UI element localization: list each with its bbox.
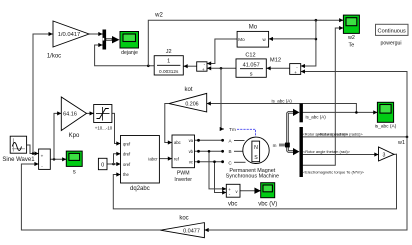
wire: branch up to Kpo input [54, 113, 61, 159]
wire: rotor angle line to w1 gain [303, 154, 378, 156]
block powergui [376, 24, 409, 46]
block Sine Wave1 [2, 136, 35, 163]
svg-text:+: + [294, 70, 297, 75]
svg-text:0.00312s: 0.00312s [159, 69, 179, 74]
svg-text:is_abc (A): is_abc (A) [375, 123, 397, 129]
mux output thick line and arrow [106, 38, 112, 41]
svg-text:is_abc (A): is_abc (A) [306, 115, 327, 120]
wire: sine reference vertical to 1/koc gain [33, 34, 52, 154]
block saturation [94, 105, 113, 131]
block PWM Inverter [172, 135, 195, 183]
svg-text:N: N [254, 145, 258, 151]
wire: 1/koc output to mux [89, 33, 102, 35]
svg-text:koc: koc [179, 216, 188, 222]
wire: PWM vc to machine C [195, 161, 223, 163]
svg-text:J2: J2 [166, 49, 172, 55]
svg-text:abc: abc [174, 140, 181, 145]
wire: PWM vb to machine B [195, 150, 223, 152]
bus selector 1 [300, 104, 303, 123]
wire: constant 0 to oref [107, 163, 120, 165]
gain koc (bottom) [161, 216, 205, 238]
bus selector 2 [300, 127, 303, 177]
svg-text:1/koc: 1/koc [47, 54, 61, 60]
svg-text:Te: Te [349, 43, 355, 49]
svg-text:+: + [41, 153, 44, 158]
wire: w1 gain output [394, 153, 397, 155]
node: junction w2 top [315, 19, 318, 22]
node: junction w2 [147, 65, 150, 68]
sum sine (error) [39, 149, 51, 169]
wire: electrical angle feedback to the input [113, 154, 396, 209]
wire: machine m output bus (thick) [279, 112, 294, 151]
node: junction speed to koc [406, 136, 409, 139]
svg-text:dref: dref [123, 152, 131, 157]
svg-text:+10...-10: +10...-10 [95, 126, 113, 131]
svg-text:va: va [189, 138, 194, 143]
wire: Mo output down to J2 sum top input [207, 39, 237, 64]
svg-text:dejanje: dejanje [121, 50, 138, 56]
wire: w2 up and across to scope w2Te input1 [148, 20, 343, 66]
scope w2 Te [343, 15, 359, 49]
bus arrowheads into selectors [293, 109, 300, 116]
svg-text:s: s [73, 170, 76, 176]
svg-text:powergui: powergui [380, 40, 401, 46]
svg-text:PWM: PWM [177, 170, 190, 176]
svg-text:Kpo: Kpo [69, 133, 80, 139]
wire: w1 speed line right to M12 sum bottom input [301, 72, 407, 137]
svg-text:qref: qref [123, 142, 131, 147]
wire: sum output to scope s [51, 158, 66, 160]
svg-text:0.0477: 0.0477 [183, 228, 200, 234]
svg-text:41.057: 41.057 [243, 62, 260, 68]
block Mo [237, 24, 269, 47]
scope is_abc [375, 102, 397, 129]
scope dejanje [120, 32, 139, 57]
svg-text:<Electromagnetic torque Te (N*: <Electromagnetic torque Te (N*m)> [303, 169, 365, 174]
svg-text:<Rotor speed wm (rad/s)>: <Rotor speed wm (rad/s)> [318, 131, 364, 136]
svg-text:+: + [202, 67, 205, 72]
svg-text:0: 0 [101, 162, 104, 168]
wire: vc branch to vbc minus [215, 162, 226, 193]
node: junction sine/1koc [32, 152, 35, 155]
wire: speed down to koc gain [205, 137, 407, 230]
svg-text:Mo: Mo [249, 24, 258, 30]
svg-text:vbc (V): vbc (V) [258, 202, 277, 208]
svg-text:0.206: 0.206 [185, 102, 198, 108]
svg-text:Continuous: Continuous [378, 28, 407, 34]
svg-text:Sine Wave1: Sine Wave1 [2, 157, 35, 163]
gain 1/koc [47, 21, 89, 60]
wire: vb branch to vbc plus [209, 151, 226, 189]
svg-text:vbc: vbc [228, 202, 237, 208]
svg-text:vc: vc [189, 159, 193, 164]
svg-text:M12: M12 [270, 57, 281, 63]
svg-text:Synchronous Machine: Synchronous Machine [226, 174, 279, 180]
svg-text:64.16: 64.16 [63, 112, 77, 118]
wire: bus selector1 output is_abc to scope [303, 111, 377, 113]
block vbc voltage measurement [226, 184, 240, 207]
svg-text:iabcr: iabcr [148, 156, 158, 161]
block J2 transfer fcn [154, 49, 183, 75]
machine PMSM [226, 127, 279, 180]
gain Kpo [61, 97, 86, 139]
sum J2sum [197, 62, 207, 72]
block C12 integrator [236, 52, 266, 77]
svg-text:oref: oref [123, 162, 131, 167]
node: junction 0 branch [112, 163, 115, 166]
svg-text:kot: kot [184, 87, 192, 93]
svg-text:Tm: Tm [229, 127, 236, 132]
svg-text:dq2abc: dq2abc [130, 186, 150, 192]
node: junction to Kpo [53, 158, 56, 161]
wire: speed feedback bottom to sum minus input [21, 164, 160, 230]
wire: PWM va to machine A [195, 139, 223, 141]
wire: w2 branch down to Mo input and M12 sum [301, 20, 316, 66]
wire: dq2abc iabcr output to PWM ref [160, 158, 172, 160]
svg-text:the: the [123, 172, 129, 177]
svg-text:B: B [228, 149, 231, 154]
svg-text:Mo: Mo [238, 37, 245, 42]
svg-text:vb: vb [189, 149, 194, 154]
node: junction is_abc / kot [355, 111, 358, 114]
wire: Sine Wave1 output to sum [27, 145, 38, 154]
wire: Tm feed down to machine [221, 68, 224, 129]
svg-text:1/0.0417: 1/0.0417 [58, 32, 81, 38]
wire: J2 sum output to J2 [184, 65, 197, 67]
svg-text:ref: ref [174, 156, 180, 161]
wire: Te line to scope w2Te input2 [303, 28, 343, 165]
wire: M12 sum output to C12 [267, 67, 290, 69]
svg-text:m: m [273, 143, 277, 148]
wire: to Mo w input [269, 38, 316, 40]
svg-text:S: S [254, 155, 258, 161]
wire: is_abc branch to kot input [207, 104, 356, 113]
wire: saturation output to dq2abc qref [112, 113, 120, 143]
constant 0 [98, 158, 107, 169]
node: junction at Mo line [315, 38, 318, 41]
svg-text:w2: w2 [347, 35, 355, 41]
scope vbc (V) [258, 183, 277, 208]
wire: Kpo output to saturation [86, 112, 93, 114]
svg-text:<Rotor angle thetam (rad)>: <Rotor angle thetam (rad)> [303, 149, 351, 154]
svg-text:w2: w2 [154, 13, 163, 19]
svg-text:1: 1 [167, 59, 170, 65]
wire: J2 output w2 to mux [95, 45, 155, 66]
svg-text:C: C [228, 160, 232, 165]
gain kot [169, 87, 207, 112]
node: junction Tm [220, 67, 223, 70]
wire: C12 output to J2 sum bottom input [207, 67, 236, 69]
scope s [66, 151, 82, 175]
svg-text:w1: w1 [397, 140, 405, 146]
sum M12sum [290, 64, 301, 75]
svg-text:s: s [250, 72, 253, 78]
node: bus junction square [285, 143, 290, 148]
gain w1 [379, 140, 405, 161]
svg-text:is_abc (A): is_abc (A) [272, 99, 293, 104]
block dq2abc [121, 136, 160, 193]
svg-text:A: A [228, 138, 232, 143]
wire: branch 0 to dref [114, 154, 121, 164]
svg-text:C12: C12 [245, 52, 255, 58]
mux [103, 30, 107, 50]
svg-text:Inverter: Inverter [174, 177, 192, 183]
svg-text:3: 3 [383, 152, 386, 158]
wire: vbc output to scope vbc [240, 190, 260, 192]
wire: kot output to PWM abc [165, 104, 172, 143]
